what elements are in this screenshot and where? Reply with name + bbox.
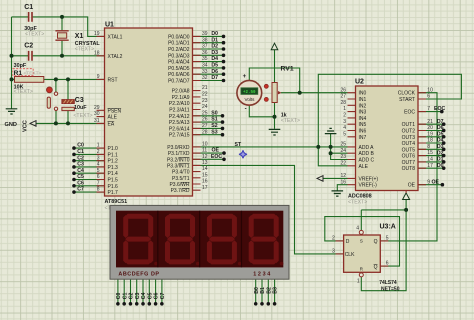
svg-text:XTAL1: XTAL1 <box>108 34 123 40</box>
svg-text:39: 39 <box>202 31 208 37</box>
svg-text:P3.3/INT1: P3.3/INT1 <box>167 163 190 169</box>
svg-text:24: 24 <box>202 104 208 110</box>
svg-text:D2: D2 <box>437 150 444 156</box>
svg-text:38: 38 <box>202 37 208 43</box>
svg-text:C5: C5 <box>77 174 84 180</box>
wire: S/R net horizontal + R loop <box>361 210 406 291</box>
svg-text:P0.2/AD2: P0.2/AD2 <box>168 47 190 53</box>
svg-text:P1.0: P1.0 <box>108 146 119 152</box>
dangling wire end dots <box>72 146 76 150</box>
svg-text:P1.4: P1.4 <box>108 171 119 177</box>
svg-text:28: 28 <box>340 100 346 106</box>
wire: U2 START to ST net and ALE <box>318 74 461 166</box>
svg-text:OUT6: OUT6 <box>402 154 416 160</box>
svg-text:P3.0/RXD: P3.0/RXD <box>167 145 190 151</box>
svg-text:37: 37 <box>202 44 208 50</box>
ground (left rail) <box>6 109 18 114</box>
svg-text:7: 7 <box>97 180 100 186</box>
svg-text:IN1: IN1 <box>359 97 367 103</box>
svg-text:OUT5: OUT5 <box>402 147 416 153</box>
svg-text:R1: R1 <box>14 70 23 77</box>
svg-text:2: 2 <box>343 113 346 119</box>
svg-text:P0.6/AD6: P0.6/AD6 <box>168 72 190 78</box>
svg-text:6: 6 <box>386 261 389 267</box>
display digit 3 <box>207 214 237 265</box>
wire: U2 EOC stub <box>418 111 442 113</box>
svg-text:16: 16 <box>340 179 346 185</box>
svg-text:D1: D1 <box>211 37 218 43</box>
svg-text:OUT3: OUT3 <box>402 135 416 141</box>
svg-text:C0: C0 <box>77 143 84 149</box>
svg-text:C3: C3 <box>75 97 84 104</box>
svg-text:D0: D0 <box>437 163 444 169</box>
U1 right pin stubs <box>193 36 201 190</box>
svg-text:D4: D4 <box>437 138 444 144</box>
potentiometer RV1 <box>272 83 277 103</box>
svg-text:PSEN: PSEN <box>108 108 122 114</box>
svg-text:B2: B2 <box>266 287 272 294</box>
capacitor C2 <box>29 51 32 61</box>
wire: VREF+ power arrow <box>323 177 348 179</box>
microcontroller U1 AT89C51 body <box>105 28 193 196</box>
svg-text:S0: S0 <box>211 110 217 116</box>
svg-text:EOC: EOC <box>404 110 415 116</box>
svg-text:35: 35 <box>202 56 208 62</box>
wire: U2 CLOCK to U3 Q <box>380 93 437 241</box>
wire: U2 OE stub <box>418 184 442 186</box>
svg-text:P0.1/AD1: P0.1/AD1 <box>168 41 190 47</box>
svg-text:10: 10 <box>427 87 433 93</box>
svg-text:10uF: 10uF <box>74 105 87 111</box>
svg-text:8: 8 <box>427 144 430 150</box>
svg-text:IN5: IN5 <box>359 122 367 128</box>
svg-text:START: START <box>399 97 415 103</box>
svg-text:2: 2 <box>97 149 100 155</box>
svg-text:P2.1/A9: P2.1/A9 <box>172 95 190 101</box>
svg-text:EOC: EOC <box>211 154 222 160</box>
svg-text:P1.7: P1.7 <box>108 190 119 196</box>
svg-text:26: 26 <box>202 117 208 123</box>
svg-text:C6: C6 <box>154 293 160 300</box>
svg-text:EA: EA <box>108 121 115 127</box>
svg-text:S: S <box>360 239 363 244</box>
svg-text:<TEXT>: <TEXT> <box>281 118 300 124</box>
svg-text:12: 12 <box>202 154 208 160</box>
power terminal VCC (to EA) <box>30 121 36 127</box>
svg-text:P3.6/WR: P3.6/WR <box>169 182 189 188</box>
svg-text:6: 6 <box>97 174 100 180</box>
svg-text:23: 23 <box>340 154 346 160</box>
wire: VREF- to ground <box>337 185 347 191</box>
power terminal (above RV1) <box>271 43 278 50</box>
svg-text:X1: X1 <box>75 33 84 40</box>
svg-text:P2.4/A12: P2.4/A12 <box>169 114 190 120</box>
svg-text:P1.5: P1.5 <box>108 178 119 184</box>
ground (below RV1) <box>269 129 281 135</box>
svg-text:1: 1 <box>97 143 100 149</box>
svg-text:NET=50: NET=50 <box>381 286 400 292</box>
svg-text:<TEXT>: <TEXT> <box>14 89 33 95</box>
display digit 1 <box>123 214 153 265</box>
svg-text:25: 25 <box>202 110 208 116</box>
wire: P3.2 EOC stub <box>193 158 225 160</box>
svg-text:D5: D5 <box>211 63 218 69</box>
svg-text:D3: D3 <box>211 50 218 56</box>
svg-text:23: 23 <box>202 98 208 104</box>
svg-text:IN3: IN3 <box>359 110 367 116</box>
wire: left GND rail <box>11 17 13 109</box>
svg-text:OE: OE <box>408 183 416 189</box>
svg-text:D7: D7 <box>211 75 218 81</box>
svg-text:10: 10 <box>202 142 208 148</box>
svg-text:21: 21 <box>427 119 433 125</box>
svg-text:C1: C1 <box>122 293 128 300</box>
svg-text:S2: S2 <box>211 123 217 129</box>
svg-text:31: 31 <box>94 118 100 124</box>
svg-text:11: 11 <box>202 148 207 154</box>
svg-text:C7: C7 <box>77 187 84 193</box>
svg-text:C4: C4 <box>141 293 147 300</box>
svg-text:P0.0/AD0: P0.0/AD0 <box>168 34 190 40</box>
svg-text:OE: OE <box>432 179 440 185</box>
wire: voltmeter + to RV1 wiper node <box>249 68 299 93</box>
svg-text:OUT8: OUT8 <box>402 166 416 172</box>
svg-text:17: 17 <box>202 185 208 191</box>
svg-text:B3: B3 <box>273 287 279 294</box>
svg-text:<TEXT>: <TEXT> <box>24 71 42 77</box>
svg-text:22: 22 <box>340 160 346 166</box>
svg-text:22: 22 <box>202 92 208 98</box>
svg-text:VREF(-): VREF(-) <box>359 183 378 189</box>
wire: C2 net / XTAL2 <box>12 55 105 57</box>
svg-text:25: 25 <box>340 142 346 148</box>
svg-text:C1: C1 <box>24 4 33 11</box>
svg-text:4: 4 <box>356 226 359 232</box>
wire: P3.3 INT1 to U3 CLK <box>193 165 344 254</box>
ground (VREF-) <box>332 191 344 196</box>
resistor R1 <box>15 77 44 83</box>
svg-text:RST: RST <box>108 77 118 83</box>
svg-text:P0.4/AD4: P0.4/AD4 <box>168 60 190 66</box>
svg-text:ALE: ALE <box>108 115 118 121</box>
svg-text:15: 15 <box>202 172 208 178</box>
svg-text:27: 27 <box>202 123 208 129</box>
svg-text:IN0: IN0 <box>359 91 367 97</box>
svg-text:C2: C2 <box>24 42 33 49</box>
flipped ground (ST/ADD net) <box>325 128 337 133</box>
svg-text:5: 5 <box>386 236 389 242</box>
wire: RV1 bottom to ground <box>274 103 276 129</box>
wire: RST net <box>12 78 105 80</box>
capacitor C3 (electrolytic) <box>62 100 74 104</box>
svg-text:P1.2: P1.2 <box>108 159 119 165</box>
svg-text:P2.7/A15: P2.7/A15 <box>169 133 190 139</box>
svg-text:D6: D6 <box>437 125 444 131</box>
svg-text:OUT2: OUT2 <box>402 128 416 134</box>
svg-text:XTAL2: XTAL2 <box>108 54 123 60</box>
svg-text:D1: D1 <box>437 157 444 163</box>
wire: D - Qbar feedback loop <box>325 217 400 267</box>
svg-text:1: 1 <box>343 106 346 112</box>
svg-text:74LS74: 74LS74 <box>379 280 397 286</box>
ADC U2 ADC0808 body <box>356 86 419 191</box>
wire: crystal vertical <box>61 17 63 56</box>
U1 left pin stubs <box>97 36 105 192</box>
svg-text:P2.0/A8: P2.0/A8 <box>172 89 190 95</box>
svg-text:C6: C6 <box>77 180 84 186</box>
svg-text:P2.3/A11: P2.3/A11 <box>169 108 189 114</box>
svg-text:36: 36 <box>202 50 208 56</box>
svg-text:ADD A: ADD A <box>359 145 375 151</box>
svg-text:ALE: ALE <box>359 164 369 170</box>
svg-text:D4: D4 <box>211 56 218 62</box>
svg-text:U3:A: U3:A <box>380 223 396 230</box>
power arrow VREF+ <box>317 176 323 182</box>
wire: RV1 wiper to U2 IN0 <box>281 92 348 94</box>
svg-text:3: 3 <box>97 155 100 161</box>
svg-text:EOC: EOC <box>434 106 445 112</box>
wires: P1.0-P1.7 with C0-C7 stubs <box>74 147 105 149</box>
svg-text:D0: D0 <box>211 31 218 37</box>
svg-text:P2.2/A10: P2.2/A10 <box>169 101 190 107</box>
wire: C3 to RST and to VCC <box>67 79 69 123</box>
wire: P3.1 OE stub <box>193 152 225 154</box>
wire: flipped ground stem to ST net <box>330 134 332 147</box>
svg-text:P0.5/AD5: P0.5/AD5 <box>168 66 190 72</box>
svg-text:18: 18 <box>94 50 100 56</box>
display digit 2 <box>165 214 195 265</box>
svg-text:P3.2/INT0: P3.2/INT0 <box>167 157 190 163</box>
svg-text:P2.5/A13: P2.5/A13 <box>169 120 190 126</box>
svg-text:Q: Q <box>374 264 378 270</box>
svg-text:20: 20 <box>427 125 433 131</box>
svg-text:AT89C51: AT89C51 <box>105 199 128 205</box>
svg-text:21: 21 <box>202 85 208 91</box>
voltmeter <box>237 80 262 105</box>
svg-text:C5: C5 <box>147 293 153 300</box>
svg-text:CLK: CLK <box>345 252 355 258</box>
svg-text:1234: 1234 <box>253 271 272 277</box>
svg-text:D: D <box>346 239 350 245</box>
svg-text:28: 28 <box>202 129 208 135</box>
svg-text:24: 24 <box>340 148 346 154</box>
svg-text:3: 3 <box>343 119 346 125</box>
svg-text:3: 3 <box>332 249 335 255</box>
svg-text:<TEXT>: <TEXT> <box>25 31 44 37</box>
svg-text:CLOCK: CLOCK <box>398 91 416 97</box>
svg-text:C4: C4 <box>77 168 84 174</box>
svg-text:C1: C1 <box>77 149 84 155</box>
svg-text:8: 8 <box>97 187 100 193</box>
U3 pin stubs <box>336 241 389 266</box>
svg-text:U2: U2 <box>355 79 364 86</box>
svg-text:Q: Q <box>374 239 378 245</box>
svg-text:RV1: RV1 <box>281 66 294 73</box>
svg-text:26: 26 <box>340 87 346 93</box>
svg-text:ADD C: ADD C <box>359 158 375 164</box>
svg-text:P1.3: P1.3 <box>108 165 119 171</box>
svg-text:34: 34 <box>202 63 208 69</box>
wire: VCC arrow to RV1 top <box>274 50 276 83</box>
capacitor C1 <box>29 12 32 22</box>
svg-text:30: 30 <box>94 111 100 117</box>
svg-text:16: 16 <box>202 179 208 185</box>
svg-text:5: 5 <box>343 131 346 137</box>
svg-text:ST: ST <box>235 142 242 148</box>
svg-text:17: 17 <box>427 163 433 169</box>
svg-text:D6: D6 <box>211 69 218 75</box>
svg-text:<TEXT>: <TEXT> <box>348 199 367 205</box>
svg-text:C3: C3 <box>77 162 84 168</box>
U3 R bubble (pin 1) <box>359 273 363 277</box>
svg-text:29: 29 <box>94 105 100 111</box>
svg-text:B1: B1 <box>260 287 266 294</box>
svg-text:OE: OE <box>212 148 220 154</box>
wire: button to RST and to VCC <box>55 79 57 123</box>
svg-text:P3.7/RD: P3.7/RD <box>171 188 190 194</box>
svg-text:Volts: Volts <box>245 97 256 102</box>
svg-text:IN6: IN6 <box>359 129 367 135</box>
crystal X1 <box>55 31 68 40</box>
svg-text:R: R <box>360 267 363 272</box>
wire: U2 VCC triangle down to S/R net <box>405 200 407 210</box>
power terminal VCC (under U2) <box>403 193 410 200</box>
svg-text:14: 14 <box>427 156 433 162</box>
svg-text:19: 19 <box>94 31 100 37</box>
svg-text:19: 19 <box>427 131 433 137</box>
svg-text:P2.6/A14: P2.6/A14 <box>169 126 190 132</box>
svg-text:C2: C2 <box>129 293 135 300</box>
svg-text:P3.4/T0: P3.4/T0 <box>172 170 190 176</box>
svg-text:IN2: IN2 <box>359 103 367 109</box>
svg-text:S3: S3 <box>211 129 217 135</box>
svg-text:12: 12 <box>340 173 346 179</box>
svg-text:15: 15 <box>427 150 433 156</box>
svg-text:9: 9 <box>427 179 430 185</box>
svg-text:6: 6 <box>427 94 430 100</box>
svg-text:GND: GND <box>5 122 17 128</box>
svg-text:OUT4: OUT4 <box>402 141 416 147</box>
svg-text:9: 9 <box>97 74 100 80</box>
junction dots <box>60 15 64 19</box>
flip-flop U3:A 74LS74 body <box>344 235 381 272</box>
svg-text:OUT7: OUT7 <box>402 160 416 166</box>
svg-text:VCC: VCC <box>23 120 29 132</box>
svg-text:P3.1/TXD: P3.1/TXD <box>168 151 190 157</box>
wires: P2.4-P2.7 S0-S3 stubs <box>193 115 223 117</box>
U3 S bubble (pin 4) <box>359 230 363 234</box>
push button (reset) <box>47 87 53 93</box>
svg-text:D3: D3 <box>437 144 444 150</box>
wire: C1 net / XTAL1 from left rail to U1 <box>12 17 105 37</box>
svg-text:4: 4 <box>343 125 346 131</box>
svg-text:5: 5 <box>97 168 100 174</box>
wires: display digit pins B0-B3 <box>255 279 257 304</box>
svg-text:2: 2 <box>332 236 335 242</box>
svg-text:1: 1 <box>357 278 360 284</box>
svg-text:C0: C0 <box>116 293 122 300</box>
svg-text:+: + <box>243 74 247 80</box>
svg-text:<TEXT>: <TEXT> <box>75 46 94 52</box>
svg-text:<TEXT>: <TEXT> <box>73 113 92 119</box>
svg-text:P1.6: P1.6 <box>108 184 119 190</box>
wires: display segment pins C0-C7 <box>117 279 119 304</box>
svg-text:7: 7 <box>427 106 430 112</box>
svg-text:32: 32 <box>202 75 208 81</box>
wire: P3.0 ST net to ADC ADD A <box>193 146 348 148</box>
svg-text:D7: D7 <box>437 119 444 125</box>
svg-text:18: 18 <box>427 138 433 144</box>
svg-text:C7: C7 <box>160 293 166 300</box>
svg-text:P3.5/T1: P3.5/T1 <box>172 176 190 182</box>
wire: VCC to EA pin 31 <box>36 122 105 124</box>
U2 left pin stubs <box>348 93 356 185</box>
svg-text:27: 27 <box>340 94 346 100</box>
svg-text:VREF(+): VREF(+) <box>359 176 379 182</box>
svg-text:+2.50: +2.50 <box>243 91 256 95</box>
svg-text:S1: S1 <box>211 117 217 123</box>
svg-text:14: 14 <box>202 166 208 172</box>
svg-text:D5: D5 <box>437 131 444 137</box>
svg-text:33: 33 <box>202 69 208 75</box>
svg-text:13: 13 <box>202 160 208 166</box>
svg-text:C2: C2 <box>77 155 84 161</box>
wires: P0.0-P0.7 D0-D7 stubs <box>193 35 224 37</box>
wire: voltmeter - to ground node <box>249 105 274 117</box>
svg-text:P1.1: P1.1 <box>108 152 119 158</box>
wires: U2 OUT1-OUT8 D7-D0 stubs <box>418 123 444 125</box>
svg-text:U1: U1 <box>105 21 114 28</box>
svg-text:IN7: IN7 <box>359 135 367 141</box>
blue marker diamond <box>239 150 247 158</box>
svg-text:OUT1: OUT1 <box>402 122 416 128</box>
svg-text:-: - <box>245 107 247 113</box>
svg-text:C3: C3 <box>135 293 141 300</box>
svg-text:P0.3/AD3: P0.3/AD3 <box>168 53 190 59</box>
svg-text:D2: D2 <box>211 44 218 50</box>
display digit 4 <box>249 214 279 265</box>
svg-text:ABCDEFG DP: ABCDEFG DP <box>118 271 159 277</box>
wire: ADD B / ADD C branch <box>331 147 348 160</box>
svg-text:ADD B: ADD B <box>359 151 375 157</box>
U2 right pin stubs <box>418 93 426 185</box>
svg-text:B0: B0 <box>254 287 260 294</box>
svg-text:IN4: IN4 <box>359 116 367 122</box>
4-digit 7-segment display <box>110 205 289 279</box>
svg-text:4: 4 <box>97 162 100 168</box>
svg-text:P0.7/AD7: P0.7/AD7 <box>168 79 190 85</box>
